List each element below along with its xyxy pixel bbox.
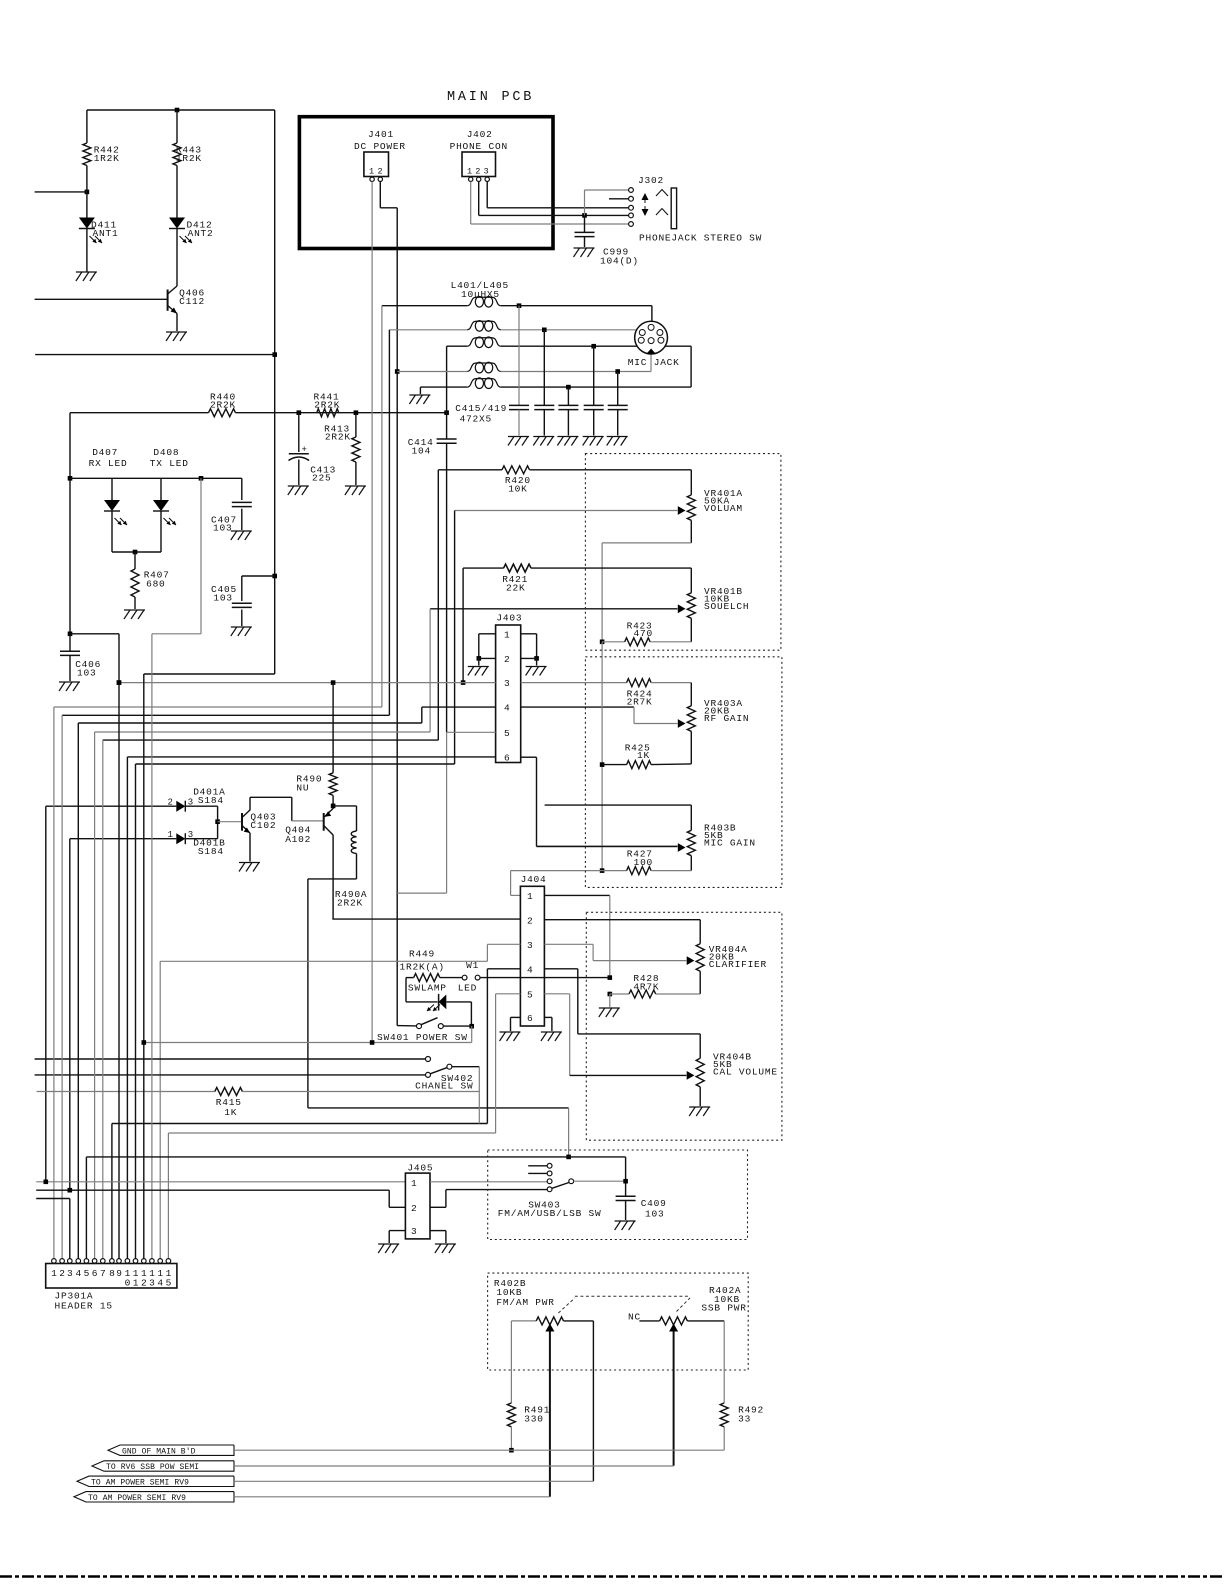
svg-text:C415/419: C415/419 [455, 403, 507, 414]
svg-text:GND OF MAIN B'D: GND OF MAIN B'D [122, 1447, 196, 1456]
svg-text:470: 470 [634, 628, 653, 639]
svg-text:6: 6 [92, 1268, 98, 1279]
svg-text:TX LED: TX LED [150, 458, 189, 469]
svg-text:33: 33 [738, 1414, 751, 1425]
svg-text:3: 3 [67, 1268, 73, 1279]
svg-text:100: 100 [634, 857, 653, 868]
svg-text:CLARIFIER: CLARIFIER [709, 959, 767, 970]
svg-text:TO AM POWER SEMI RV9: TO AM POWER SEMI RV9 [88, 1494, 186, 1503]
svg-text:MIC JACK: MIC JACK [628, 357, 680, 368]
svg-text:3: 3 [484, 167, 489, 177]
svg-text:5: 5 [166, 1278, 172, 1289]
svg-text:A102: A102 [285, 834, 311, 845]
svg-text:SWLAMP: SWLAMP [408, 983, 447, 994]
svg-text:J404: J404 [521, 874, 547, 885]
svg-text:2: 2 [378, 167, 383, 177]
svg-text:2: 2 [504, 654, 510, 665]
svg-text:HEADER 15: HEADER 15 [55, 1301, 113, 1312]
svg-text:6: 6 [527, 1013, 533, 1024]
svg-text:NU: NU [296, 783, 309, 794]
svg-text:CHANEL SW: CHANEL SW [415, 1081, 473, 1092]
svg-text:3: 3 [149, 1278, 155, 1289]
svg-text:1R2K(A): 1R2K(A) [400, 962, 445, 973]
svg-text:472X5: 472X5 [460, 414, 492, 425]
svg-text:7: 7 [100, 1268, 106, 1279]
svg-text:2: 2 [475, 167, 480, 177]
svg-text:1: 1 [133, 1278, 139, 1289]
svg-text:J405: J405 [407, 1162, 433, 1173]
svg-text:D407: D407 [92, 447, 118, 458]
svg-text:J302: J302 [638, 175, 664, 186]
svg-text:C409: C409 [641, 1198, 667, 1209]
svg-text:+: + [302, 445, 307, 455]
svg-text:MAIN PCB: MAIN PCB [447, 90, 534, 105]
svg-text:3: 3 [527, 940, 533, 951]
svg-text:TO AM POWER SEMI RV9: TO AM POWER SEMI RV9 [91, 1479, 189, 1488]
svg-text:103: 103 [213, 523, 232, 534]
svg-text:SSB PWR: SSB PWR [701, 1303, 746, 1314]
svg-text:680: 680 [146, 579, 165, 590]
svg-text:J403: J403 [496, 613, 522, 624]
svg-text:2: 2 [411, 1203, 417, 1214]
svg-text:NC: NC [628, 1311, 641, 1322]
svg-text:104: 104 [412, 446, 431, 457]
svg-text:9: 9 [116, 1268, 122, 1279]
svg-text:4: 4 [527, 964, 533, 975]
svg-text:S184: S184 [198, 846, 224, 857]
svg-text:FM/AM/USB/LSB SW: FM/AM/USB/LSB SW [498, 1208, 602, 1219]
svg-text:10K: 10K [508, 484, 527, 495]
svg-text:R449: R449 [409, 949, 435, 960]
svg-text:2R2K: 2R2K [314, 400, 340, 411]
svg-text:2R7K: 2R7K [627, 697, 653, 708]
svg-text:SW401 POWER SW: SW401 POWER SW [377, 1032, 468, 1043]
svg-text:1R2K: 1R2K [176, 153, 202, 164]
svg-text:5: 5 [504, 728, 510, 739]
svg-text:MIC GAIN: MIC GAIN [704, 837, 756, 848]
svg-text:330: 330 [524, 1414, 543, 1425]
svg-text:22K: 22K [506, 583, 525, 594]
svg-text:1K: 1K [224, 1107, 237, 1118]
svg-text:J401: J401 [368, 129, 394, 140]
svg-text:2R2K: 2R2K [337, 897, 363, 908]
svg-text:0: 0 [125, 1278, 131, 1289]
svg-text:3: 3 [504, 678, 510, 689]
svg-text:103: 103 [77, 668, 96, 679]
svg-text:3: 3 [188, 797, 193, 807]
svg-text:225: 225 [312, 473, 331, 484]
svg-text:4: 4 [504, 703, 510, 714]
svg-text:D408: D408 [153, 447, 179, 458]
svg-text:103: 103 [213, 593, 232, 604]
svg-text:2R2K: 2R2K [325, 432, 351, 443]
svg-text:2: 2 [527, 915, 533, 926]
svg-text:8: 8 [109, 1268, 115, 1279]
svg-text:FM/AM PWR: FM/AM PWR [496, 1297, 554, 1308]
svg-text:TO RV6 SSB POW SEMI: TO RV6 SSB POW SEMI [106, 1463, 199, 1472]
svg-text:5: 5 [84, 1268, 90, 1279]
svg-text:1K: 1K [637, 750, 650, 761]
svg-text:J402: J402 [467, 129, 493, 140]
svg-text:1R2K: 1R2K [94, 153, 120, 164]
svg-text:1: 1 [369, 167, 374, 177]
svg-text:2: 2 [59, 1268, 65, 1279]
svg-text:1: 1 [168, 830, 173, 840]
svg-text:2: 2 [168, 797, 173, 807]
svg-text:104(D): 104(D) [600, 256, 639, 267]
svg-text:CAL VOLUME: CAL VOLUME [713, 1066, 778, 1077]
svg-text:1: 1 [467, 167, 472, 177]
svg-text:RX LED: RX LED [89, 458, 128, 469]
svg-text:103: 103 [645, 1209, 664, 1220]
svg-text:PHONE CON: PHONE CON [450, 141, 508, 152]
svg-text:1: 1 [504, 629, 510, 640]
svg-text:ANT1: ANT1 [93, 228, 119, 239]
svg-text:4: 4 [157, 1278, 163, 1289]
svg-text:1: 1 [411, 1178, 417, 1189]
svg-text:RF GAIN: RF GAIN [704, 713, 749, 724]
svg-text:C102: C102 [250, 820, 276, 831]
svg-text:5: 5 [527, 989, 533, 1000]
svg-text:2: 2 [141, 1278, 147, 1289]
svg-text:SOUELCH: SOUELCH [704, 601, 749, 612]
svg-text:ANT2: ANT2 [188, 228, 214, 239]
svg-text:VOLUAM: VOLUAM [704, 503, 743, 514]
svg-text:W1: W1 [466, 960, 479, 971]
svg-text:2R2K: 2R2K [210, 400, 236, 411]
svg-text:DC POWER: DC POWER [354, 141, 406, 152]
svg-text:3: 3 [411, 1226, 417, 1237]
svg-text:4: 4 [76, 1268, 82, 1279]
svg-text:S184: S184 [198, 795, 224, 806]
svg-text:6: 6 [504, 753, 510, 764]
svg-text:PHONEJACK STEREO SW: PHONEJACK STEREO SW [639, 233, 762, 244]
svg-text:LED: LED [458, 983, 477, 994]
svg-text:1: 1 [51, 1268, 57, 1279]
svg-text:4R7K: 4R7K [633, 982, 659, 993]
svg-text:C112: C112 [179, 296, 205, 307]
svg-text:1: 1 [527, 891, 533, 902]
